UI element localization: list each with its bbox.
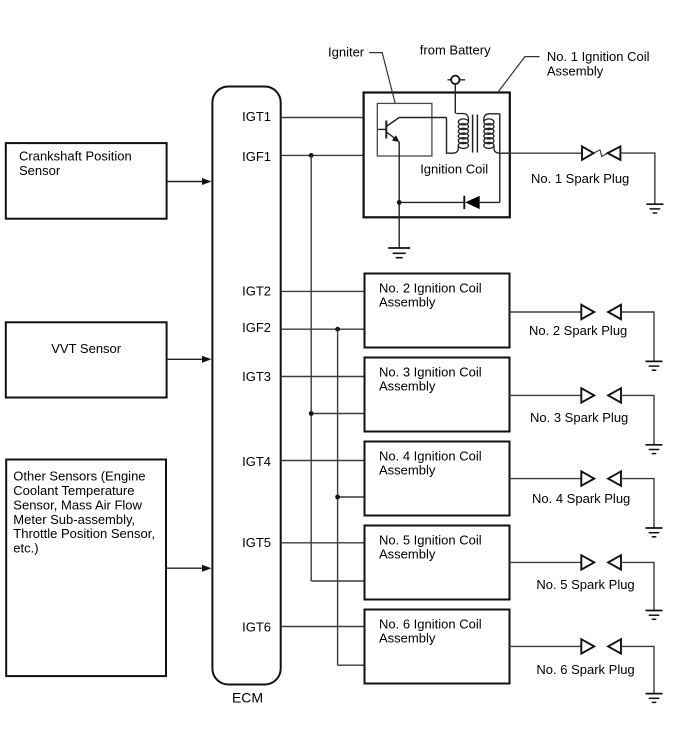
spark plug 1	[582, 146, 620, 160]
wire spark plug 6 to ground	[621, 646, 654, 693]
wire IGT3	[281, 376, 365, 378]
wire IGF to No.6 coil	[338, 664, 365, 666]
spark plug 3	[581, 388, 621, 402]
wire spark plug 1 to ground	[620, 153, 655, 204]
svg-text:No. 3 Spark Plug: No. 3 Spark Plug	[530, 410, 628, 425]
svg-text:ECM: ECM	[232, 690, 263, 706]
wire IGF to No.5 coil	[311, 580, 364, 582]
ground spark plug 5	[646, 611, 663, 620]
wire coil 1 to spark plug	[510, 152, 582, 154]
wire IGF to No.3 coil	[311, 413, 364, 415]
svg-text:IGT6: IGT6	[242, 620, 271, 635]
No. 1 ignition coil assembly box	[364, 93, 510, 218]
arrow: VVT sensor to ECM	[167, 356, 212, 363]
wire spark plug 2 to ground	[621, 312, 654, 361]
svg-text:No. 6 Spark Plug: No. 6 Spark Plug	[536, 662, 634, 677]
svg-text:Assembly: Assembly	[379, 631, 436, 646]
wire IGF2	[281, 328, 365, 330]
wire IGT5	[281, 542, 365, 544]
wire IGF2 bus vertical	[337, 329, 339, 665]
transformer T1 primary	[453, 114, 469, 154]
wire spark plug 3 to ground	[621, 395, 654, 444]
svg-text:IGT2: IGT2	[242, 284, 271, 299]
transistor Q1	[378, 118, 447, 143]
svg-text:Crankshaft Position: Crankshaft Position	[19, 149, 132, 164]
svg-text:Meter Sub-assembly,: Meter Sub-assembly,	[13, 512, 135, 527]
svg-text:Sensor: Sensor	[19, 163, 61, 178]
junction emitter/diode node	[397, 200, 402, 205]
svg-text:from Battery: from Battery	[420, 42, 491, 57]
junction IGF2 bus	[335, 327, 340, 332]
battery terminal	[448, 76, 466, 84]
sensor block: VVT Sensor	[6, 322, 167, 397]
wire spark plug 5 to ground	[621, 562, 654, 610]
svg-text:IGT5: IGT5	[242, 535, 271, 550]
svg-text:etc.): etc.)	[13, 541, 38, 556]
ground spark plug 1	[646, 204, 663, 213]
wire IGF1	[281, 154, 364, 156]
leader line No.1 assembly label	[498, 57, 540, 93]
sensor block: Other Sensors	[6, 460, 166, 677]
svg-text:Assembly: Assembly	[547, 64, 604, 79]
svg-text:No. 6 Ignition Coil: No. 6 Ignition Coil	[379, 617, 482, 632]
svg-text:No. 2 Spark Plug: No. 2 Spark Plug	[529, 323, 627, 338]
ground spark plug 4	[646, 528, 663, 537]
wire coil 5 to spark plug	[510, 561, 582, 563]
junction IGF1 bus	[309, 153, 314, 158]
leader line Igniter	[369, 53, 395, 104]
No. 3 ignition coil assembly box	[365, 358, 510, 432]
svg-text:Throttle Position Sensor,: Throttle Position Sensor,	[13, 526, 155, 541]
No. 6 ignition coil assembly box	[365, 610, 510, 684]
wire IGF to No.4 coil	[338, 496, 365, 498]
transformer T1 secondary	[484, 114, 510, 153]
wire coil 3 to spark plug	[510, 394, 582, 396]
No. 4 ignition coil assembly box	[365, 442, 510, 516]
spark plug 4	[581, 471, 621, 485]
svg-text:No. 1 Ignition Coil: No. 1 Ignition Coil	[547, 49, 650, 64]
svg-text:Assembly: Assembly	[379, 379, 436, 394]
svg-text:IGT1: IGT1	[242, 109, 271, 124]
wire coil 6 to spark plug	[510, 645, 582, 647]
svg-text:Other Sensors (Engine: Other Sensors (Engine	[13, 469, 145, 484]
ground spark plug 3	[646, 445, 663, 454]
wire IGT1	[281, 117, 364, 119]
wire IGT4	[281, 460, 365, 462]
label No. 1 Ignition Coil Assembly	[547, 49, 650, 79]
ground spark plug 6	[646, 694, 663, 703]
wire spark plug 4 to ground	[621, 479, 654, 528]
wire coil 2 to spark plug	[510, 311, 582, 313]
diode D1	[402, 196, 500, 209]
sensor block: Crankshaft Position Sensor	[6, 143, 167, 219]
spark plug 2	[581, 305, 621, 319]
svg-text:Assembly: Assembly	[379, 463, 436, 478]
svg-text:No. 3 Ignition Coil: No. 3 Ignition Coil	[379, 365, 482, 380]
svg-text:No. 4 Ignition Coil: No. 4 Ignition Coil	[379, 449, 482, 464]
ground spark plug 2	[646, 361, 663, 370]
junction IGF2 bus to No.4 coil	[335, 495, 340, 500]
svg-text:IGF1: IGF1	[242, 149, 271, 164]
svg-text:Assembly: Assembly	[379, 547, 436, 562]
svg-text:No. 2 Ignition Coil: No. 2 Ignition Coil	[379, 281, 482, 296]
junction IGF1 bus to No.3 coil	[309, 411, 314, 416]
wire IGT6	[281, 626, 365, 628]
arrow: other sensors to ECM	[166, 565, 212, 572]
No. 5 ignition coil assembly box	[365, 526, 510, 600]
igniter sub-box	[377, 103, 432, 156]
wire IGF1 bus vertical	[310, 155, 312, 581]
spark plug 6	[581, 639, 621, 653]
ECM U1	[212, 87, 280, 706]
svg-text:Sensor, Mass Air Flow: Sensor, Mass Air Flow	[13, 497, 142, 512]
svg-text:IGF2: IGF2	[242, 320, 271, 335]
spark plug 5	[581, 555, 621, 569]
svg-text:VVT Sensor: VVT Sensor	[51, 341, 122, 356]
No. 2 ignition coil assembly box	[365, 274, 510, 348]
svg-text:Ignition Coil: Ignition Coil	[420, 162, 488, 177]
svg-text:No. 5 Spark Plug: No. 5 Spark Plug	[536, 577, 634, 592]
wire collector to primary	[447, 118, 453, 154]
svg-text:No. 5 Ignition Coil: No. 5 Ignition Coil	[379, 533, 482, 548]
wire IGT2	[281, 290, 365, 292]
wire secondary top to diode	[499, 114, 501, 203]
svg-text:Assembly: Assembly	[379, 295, 436, 310]
wire coil 4 to spark plug	[510, 478, 582, 480]
svg-text:Coolant Temperature: Coolant Temperature	[13, 483, 134, 498]
arrow: crankshaft sensor to ECM	[167, 178, 212, 185]
svg-text:No. 1 Spark Plug: No. 1 Spark Plug	[531, 171, 629, 186]
wire emitter to ground	[398, 142, 400, 248]
svg-text:Igniter: Igniter	[328, 45, 365, 60]
ground igniter	[388, 248, 410, 258]
svg-text:No. 4 Spark Plug: No. 4 Spark Plug	[532, 491, 630, 506]
wire from battery to primary	[454, 84, 456, 114]
svg-text:IGT3: IGT3	[242, 369, 271, 384]
svg-text:IGT4: IGT4	[242, 454, 271, 469]
transformer T1 core	[473, 115, 478, 153]
